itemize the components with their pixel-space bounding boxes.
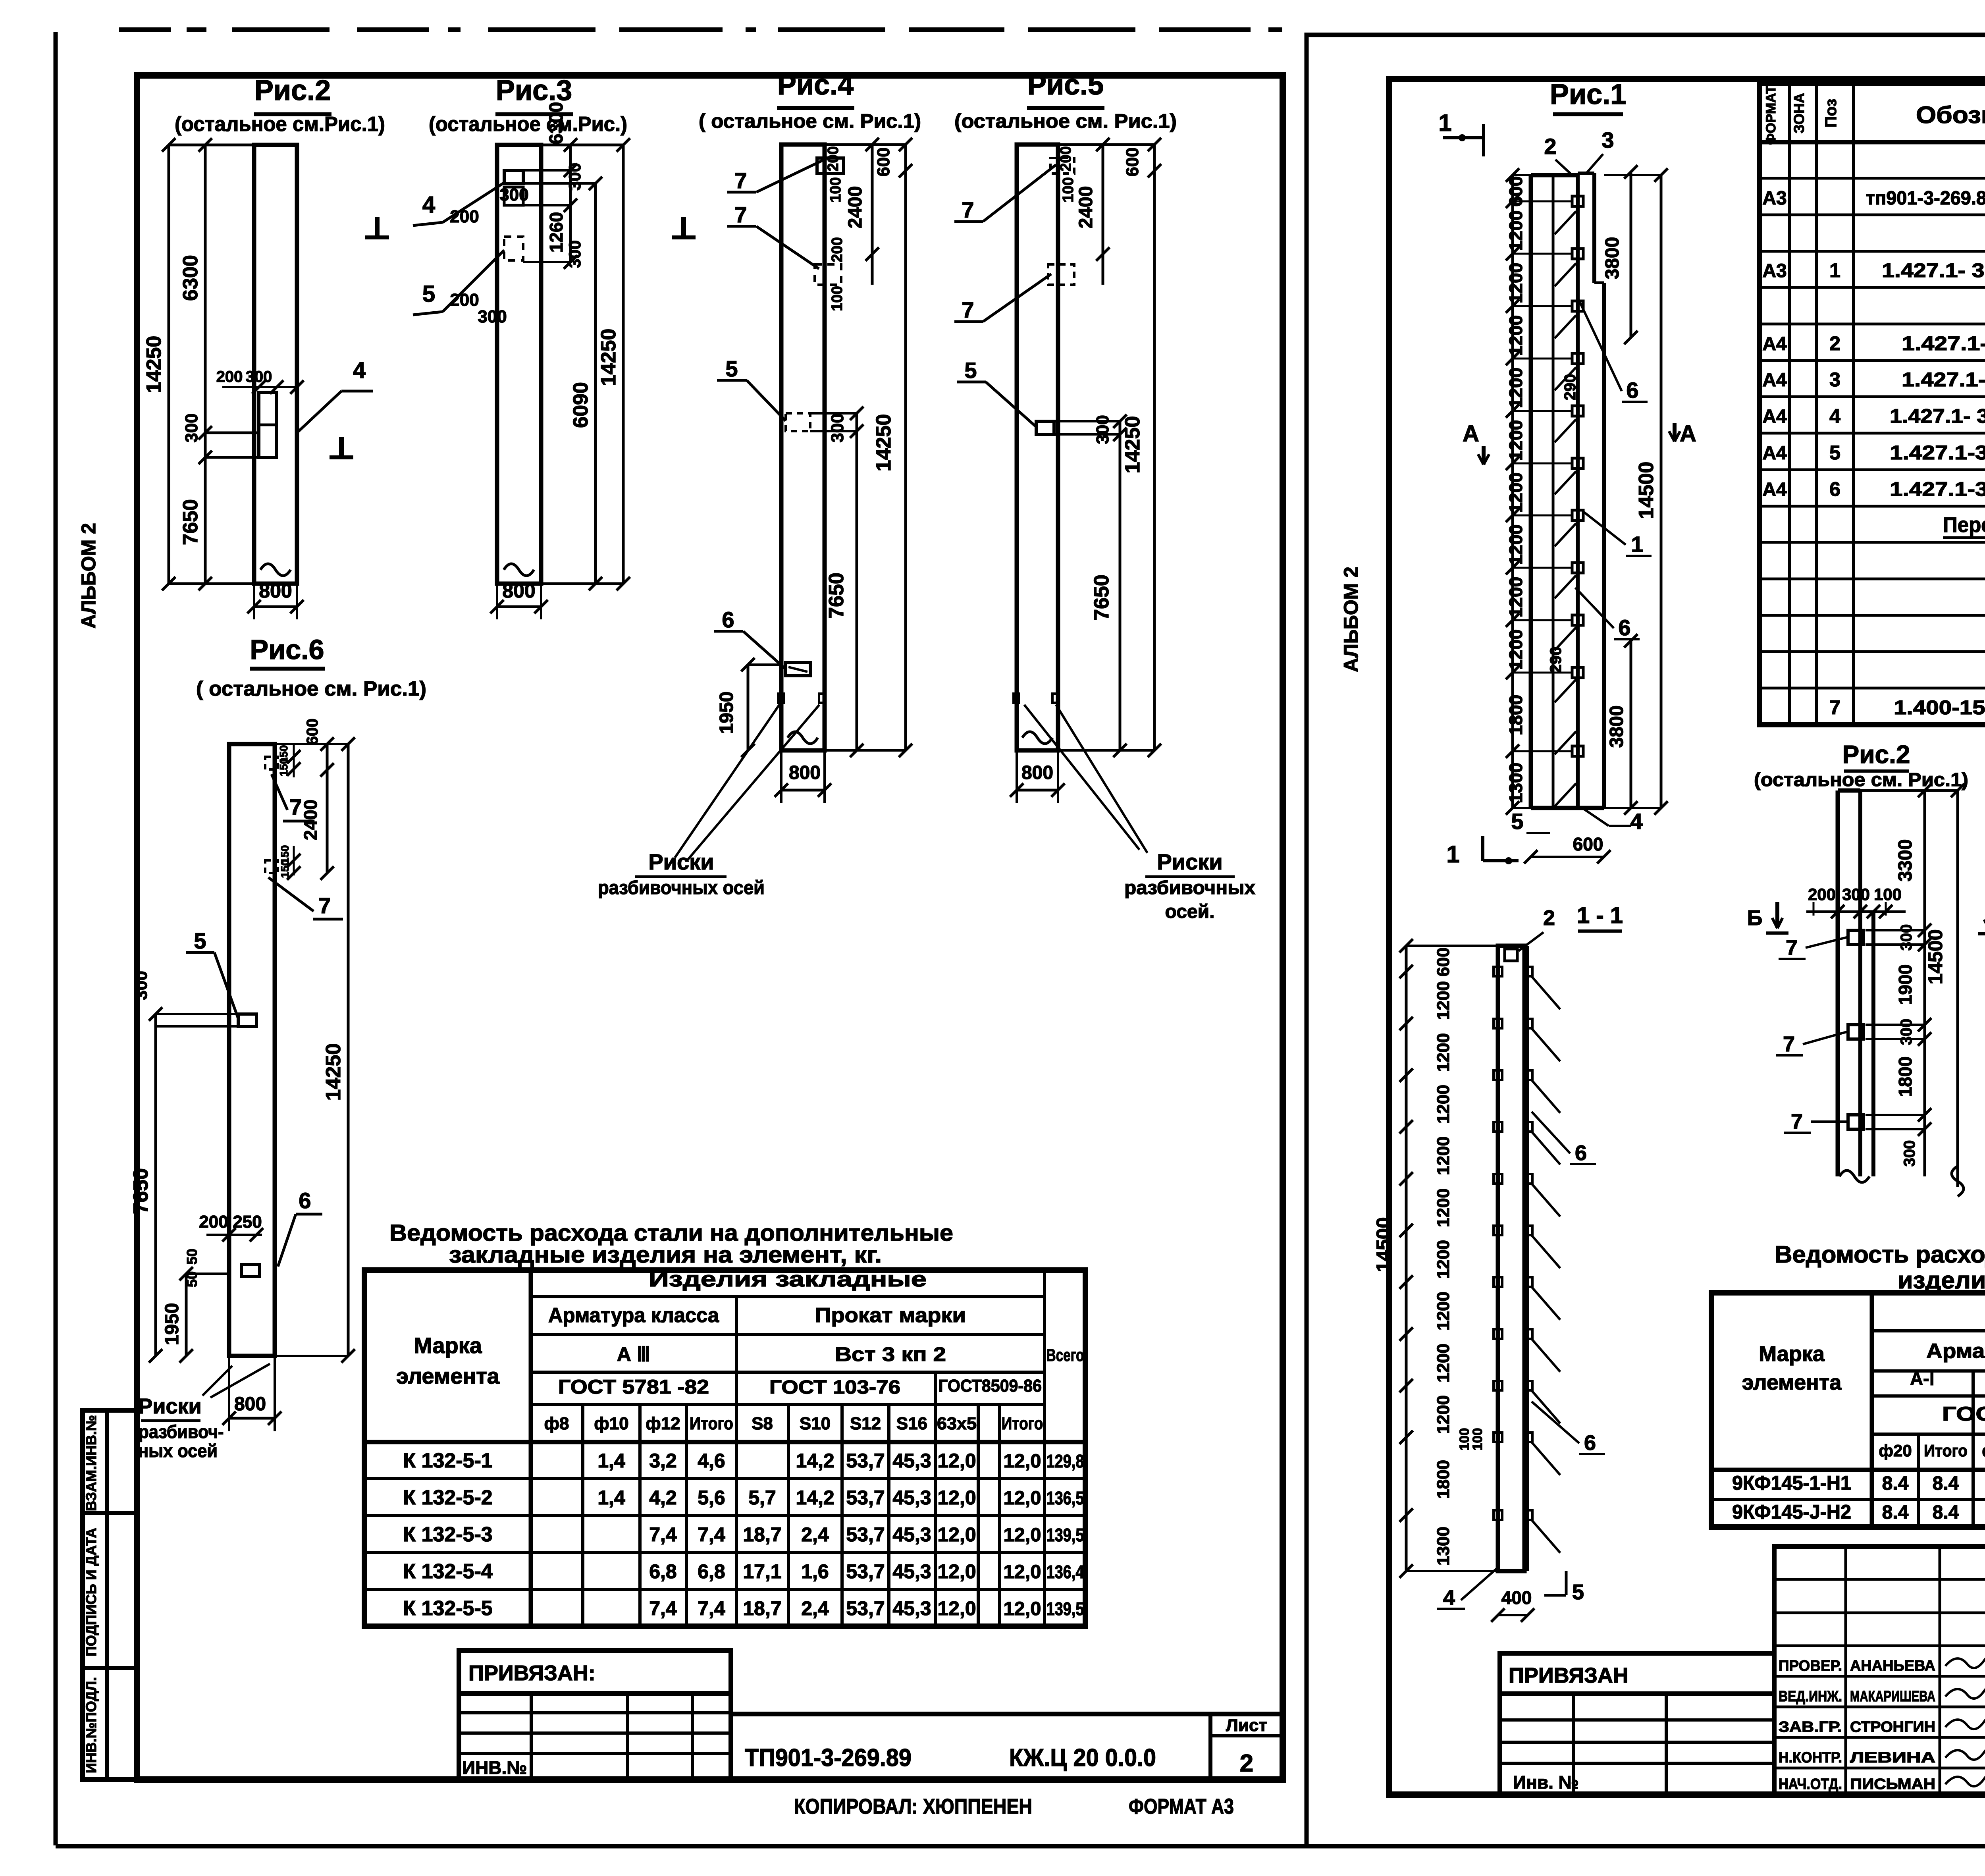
- svg-text:1200: 1200: [1434, 1033, 1453, 1072]
- svg-text:7650: 7650: [179, 499, 202, 545]
- svg-text:Риски: Риски: [648, 849, 714, 874]
- svg-text:14250: 14250: [322, 1043, 345, 1101]
- svg-text:Лист: Лист: [1226, 1716, 1267, 1735]
- svg-text:14500: 14500: [1635, 462, 1658, 519]
- svg-text:Риски: Риски: [138, 1394, 201, 1418]
- svg-text:14250: 14250: [597, 329, 620, 386]
- svg-text:(остальное см. Рис.1): (остальное см. Рис.1): [954, 110, 1177, 132]
- svg-text:300: 300: [565, 163, 584, 191]
- svg-text:разбивочных: разбивочных: [1124, 877, 1255, 898]
- svg-text:53,7: 53,7: [846, 1597, 885, 1620]
- svg-text:300: 300: [499, 185, 528, 204]
- svg-text:ГОСТ 103-76: ГОСТ 103-76: [769, 1377, 900, 1398]
- svg-text:1200: 1200: [1505, 368, 1526, 408]
- svg-text:1: 1: [1438, 110, 1451, 136]
- svg-text:200: 200: [450, 207, 479, 226]
- svg-text:3800: 3800: [1602, 237, 1623, 280]
- svg-text:Рис.3: Рис.3: [496, 75, 572, 106]
- svg-text:элемента: элемента: [396, 1363, 500, 1388]
- svg-text:1800: 1800: [1434, 1460, 1453, 1499]
- svg-text:6: 6: [299, 1188, 311, 1213]
- svg-text:1950: 1950: [162, 1303, 183, 1346]
- svg-text:7: 7: [1786, 936, 1798, 960]
- svg-text:53,7: 53,7: [846, 1450, 885, 1472]
- svg-text:1200: 1200: [1505, 577, 1526, 617]
- svg-text:18,7: 18,7: [743, 1523, 781, 1546]
- svg-text:1200: 1200: [1434, 1085, 1453, 1124]
- svg-text:200: 200: [216, 368, 243, 386]
- svg-text:1200: 1200: [1505, 629, 1526, 670]
- svg-text:разбивоч-: разбивоч-: [139, 1421, 224, 1442]
- svg-text:14,2: 14,2: [796, 1487, 834, 1509]
- svg-text:А-Ⅰ: А-Ⅰ: [1910, 1368, 1935, 1389]
- svg-text:200: 200: [829, 237, 846, 262]
- svg-text:7,4: 7,4: [698, 1523, 725, 1546]
- svg-text:50: 50: [184, 1249, 200, 1265]
- svg-text:8.4: 8.4: [1933, 1473, 1959, 1494]
- svg-text:800: 800: [234, 1394, 266, 1415]
- svg-text:12,0: 12,0: [1004, 1525, 1041, 1546]
- svg-text:7: 7: [1829, 696, 1840, 719]
- svg-text:1200: 1200: [1434, 1240, 1453, 1279]
- svg-text:тп901-3-269.89: тп901-3-269.89: [1866, 188, 1985, 209]
- svg-text:12,0: 12,0: [1004, 1598, 1041, 1620]
- svg-text:Рис.1: Рис.1: [1550, 79, 1626, 110]
- svg-text:закладные изделия на элемент,: закладные изделия на элемент, кг.: [449, 1242, 882, 1268]
- svg-text:ф20: ф20: [1879, 1441, 1912, 1460]
- svg-text:53,7: 53,7: [846, 1487, 885, 1509]
- svg-text:53,7: 53,7: [846, 1523, 885, 1546]
- svg-text:Вст 3 кп 2: Вст 3 кп 2: [835, 1343, 946, 1365]
- svg-text:800: 800: [502, 580, 535, 602]
- svg-text:5: 5: [725, 356, 738, 381]
- svg-text:150: 150: [279, 860, 291, 878]
- svg-text:8.4: 8.4: [1933, 1502, 1959, 1523]
- svg-text:КЖ.Ц 20 0.0.0: КЖ.Ц 20 0.0.0: [1009, 1744, 1156, 1772]
- svg-text:А4: А4: [1762, 479, 1787, 500]
- svg-text:S10: S10: [800, 1414, 831, 1433]
- svg-text:300: 300: [1842, 885, 1870, 904]
- svg-text:(остальное см.Рис.): (остальное см.Рис.): [429, 113, 627, 136]
- svg-text:ф10: ф10: [1982, 1441, 1985, 1460]
- svg-text:12,0: 12,0: [1004, 1451, 1041, 1472]
- svg-text:2,4: 2,4: [801, 1523, 829, 1546]
- svg-text:1200: 1200: [1434, 1344, 1453, 1382]
- svg-text:Инв. №: Инв. №: [1513, 1772, 1579, 1793]
- svg-text:200: 200: [450, 290, 479, 310]
- svg-text:ГОСТ8509-86: ГОСТ8509-86: [939, 1376, 1042, 1396]
- svg-text:300: 300: [182, 413, 201, 442]
- svg-text:ПРИВЯЗАН:: ПРИВЯЗАН:: [468, 1661, 595, 1685]
- svg-text:осей.: осей.: [1165, 901, 1215, 922]
- svg-text:Изделия закладные: Изделия закладные: [649, 1267, 927, 1291]
- svg-text:1900: 1900: [1895, 964, 1916, 1005]
- svg-text:12,0: 12,0: [1004, 1488, 1041, 1509]
- svg-text:1,6: 1,6: [801, 1560, 829, 1583]
- svg-text:А3: А3: [1762, 188, 1786, 209]
- svg-text:7650: 7650: [1090, 575, 1113, 621]
- svg-text:18,7: 18,7: [743, 1597, 781, 1620]
- svg-text:6090: 6090: [569, 382, 592, 428]
- svg-text:7: 7: [318, 893, 331, 918]
- svg-text:АНАНЬЕВА: АНАНЬЕВА: [1850, 1658, 1935, 1674]
- svg-text:7: 7: [1783, 1032, 1795, 1056]
- svg-text:100: 100: [827, 177, 844, 202]
- svg-text:1800: 1800: [1895, 1057, 1916, 1097]
- svg-text:изделия на один элемент, кг: изделия на один элемент, кг: [1898, 1267, 1985, 1294]
- svg-text:3,2: 3,2: [649, 1450, 677, 1472]
- svg-text:Поз: Поз: [1822, 99, 1840, 128]
- svg-text:800: 800: [1021, 762, 1053, 783]
- svg-text:1200: 1200: [1505, 315, 1526, 356]
- svg-text:А4: А4: [1762, 406, 1787, 427]
- svg-text:14500: 14500: [1372, 1217, 1395, 1272]
- svg-text:1,4: 1,4: [597, 1487, 625, 1509]
- svg-text:СТРОНГИН: СТРОНГИН: [1850, 1719, 1935, 1735]
- svg-text:129,8: 129,8: [1046, 1451, 1084, 1471]
- svg-text:45,3: 45,3: [892, 1523, 931, 1546]
- svg-text:К 132-5-3: К 132-5-3: [403, 1523, 492, 1546]
- svg-text:6: 6: [1626, 378, 1638, 403]
- svg-text:800: 800: [789, 762, 821, 783]
- svg-text:1300: 1300: [1505, 763, 1526, 803]
- svg-text:7: 7: [962, 197, 974, 222]
- svg-text:Итого: Итого: [1002, 1414, 1043, 1433]
- svg-text:300: 300: [131, 971, 151, 1000]
- svg-text:1200: 1200: [1505, 472, 1526, 513]
- svg-text:ГОСТ 5781 -82: ГОСТ 5781 -82: [558, 1376, 709, 1398]
- svg-text:53,7: 53,7: [846, 1560, 885, 1583]
- svg-text:2: 2: [1240, 1750, 1253, 1777]
- svg-text:элемента: элемента: [1742, 1371, 1842, 1394]
- svg-text:600: 600: [304, 719, 321, 745]
- svg-text:( остальное см. Рис.1): ( остальное см. Рис.1): [196, 677, 426, 700]
- svg-text:14250: 14250: [1121, 416, 1144, 474]
- svg-text:ф12: ф12: [646, 1414, 680, 1433]
- svg-text:КОПИРОВАЛ: ХЮППЕНЕН: КОПИРОВАЛ: ХЮППЕНЕН: [794, 1795, 1032, 1818]
- svg-text:300: 300: [565, 240, 584, 268]
- svg-text:1.427.1- 3.1- 2.00 -12.9: 1.427.1- 3.1- 2.00 -12.9: [1882, 259, 1985, 281]
- svg-text:400: 400: [1501, 1587, 1532, 1608]
- svg-text:S8: S8: [752, 1414, 773, 1433]
- svg-text:S12: S12: [850, 1414, 881, 1433]
- svg-text:7,4: 7,4: [649, 1597, 677, 1620]
- svg-text:6: 6: [1575, 1141, 1587, 1165]
- svg-text:1200: 1200: [1434, 1188, 1453, 1227]
- svg-text:6: 6: [1618, 615, 1630, 640]
- svg-text:ных осей: ных осей: [138, 1440, 218, 1461]
- svg-text:5: 5: [1572, 1580, 1584, 1604]
- svg-text:А3: А3: [1762, 260, 1786, 281]
- svg-text:7,4: 7,4: [698, 1597, 725, 1620]
- svg-text:3300: 3300: [1895, 839, 1916, 882]
- svg-text:139,5: 139,5: [1046, 1525, 1084, 1545]
- svg-text:2: 2: [1829, 332, 1840, 355]
- svg-text:1: 1: [1446, 841, 1459, 868]
- svg-text:300: 300: [246, 368, 272, 386]
- svg-text:5: 5: [1511, 809, 1523, 834]
- svg-text:ФОРМАТ: ФОРМАТ: [1763, 85, 1779, 145]
- svg-text:300: 300: [1898, 924, 1915, 951]
- svg-text:К 132-5-2: К 132-5-2: [403, 1486, 492, 1509]
- svg-text:Рис.6: Рис.6: [250, 634, 324, 665]
- svg-text:Риски: Риски: [1157, 849, 1222, 874]
- svg-text:А: А: [1680, 421, 1696, 447]
- svg-text:( остальное см. Рис.1): ( остальное см. Рис.1): [699, 110, 921, 132]
- svg-text:17,1: 17,1: [743, 1560, 781, 1583]
- svg-text:12,0: 12,0: [937, 1450, 976, 1472]
- svg-text:136,5: 136,5: [1046, 1488, 1084, 1508]
- svg-text:1 - 1: 1 - 1: [1577, 902, 1623, 928]
- svg-text:А4: А4: [1762, 443, 1787, 464]
- svg-text:9КФ145-1-Н1: 9КФ145-1-Н1: [1732, 1472, 1851, 1494]
- svg-text:14250: 14250: [143, 336, 166, 393]
- svg-text:2400: 2400: [300, 800, 321, 840]
- svg-text:1.427.1- 3.2 - 0.07.0: 1.427.1- 3.2 - 0.07.0: [1902, 368, 1985, 391]
- svg-text:разбивочных осей: разбивочных осей: [598, 877, 765, 898]
- svg-text:12,0: 12,0: [1004, 1562, 1041, 1583]
- svg-text:ПОДПИСЬ И ДАТА: ПОДПИСЬ И ДАТА: [83, 1528, 99, 1656]
- svg-text:600: 600: [1434, 947, 1453, 976]
- svg-text:Ведомость расхода стали на доп: Ведомость расхода стали на дополнительны…: [1775, 1241, 1985, 1268]
- svg-text:1.427.1- 3.2- 0.12.0 -01: 1.427.1- 3.2- 0.12.0 -01: [1890, 405, 1985, 427]
- svg-text:АЛЬБОМ 2: АЛЬБОМ 2: [77, 523, 100, 629]
- svg-text:1.400-15 В1 210-42: 1.400-15 В1 210-42: [1894, 696, 1985, 719]
- svg-text:600: 600: [1123, 147, 1142, 176]
- svg-text:6: 6: [1584, 1431, 1596, 1455]
- svg-text:ТП901-3-269.89: ТП901-3-269.89: [745, 1744, 912, 1772]
- svg-text:45,3: 45,3: [892, 1450, 931, 1472]
- svg-text:600: 600: [1573, 834, 1603, 854]
- svg-text:А: А: [1463, 421, 1479, 447]
- svg-text:5,6: 5,6: [698, 1487, 725, 1509]
- svg-text:ф10: ф10: [594, 1414, 628, 1433]
- svg-text:Обозначение: Обозначение: [1916, 102, 1985, 128]
- svg-text:12,0: 12,0: [937, 1597, 976, 1620]
- svg-text:Итого: Итого: [690, 1414, 733, 1433]
- svg-text:4: 4: [353, 357, 366, 383]
- svg-text:100: 100: [829, 286, 846, 311]
- svg-text:7650: 7650: [825, 573, 848, 619]
- svg-text:ВЗАМ.ИНВ.№: ВЗАМ.ИНВ.№: [83, 1415, 99, 1511]
- svg-text:6: 6: [722, 607, 734, 632]
- svg-text:4: 4: [422, 192, 435, 218]
- svg-text:(остальное см. Рис.1): (остальное см. Рис.1): [1754, 769, 1968, 791]
- svg-text:250: 250: [233, 1212, 262, 1232]
- svg-text:7: 7: [962, 297, 974, 322]
- svg-text:200: 200: [199, 1212, 228, 1232]
- svg-text:45,3: 45,3: [892, 1560, 931, 1583]
- svg-text:14250: 14250: [872, 414, 895, 472]
- svg-text:200: 200: [825, 146, 842, 171]
- svg-text:5: 5: [964, 358, 977, 383]
- svg-text:ИНВ.№: ИНВ.№: [462, 1757, 527, 1778]
- svg-text:S16: S16: [896, 1414, 927, 1433]
- svg-text:1,4: 1,4: [597, 1450, 625, 1472]
- svg-text:1800: 1800: [1505, 695, 1526, 735]
- svg-text:7,4: 7,4: [649, 1523, 677, 1546]
- svg-text:5: 5: [1829, 442, 1840, 464]
- svg-text:6,8: 6,8: [649, 1560, 677, 1583]
- svg-text:Марка: Марка: [414, 1333, 482, 1358]
- svg-text:8.4: 8.4: [1882, 1502, 1909, 1523]
- svg-text:3: 3: [1601, 127, 1614, 152]
- svg-text:Прокат марки: Прокат марки: [815, 1304, 966, 1327]
- svg-text:6,8: 6,8: [698, 1560, 725, 1583]
- svg-text:1260: 1260: [546, 212, 567, 253]
- svg-text:1.427.1-3.2-0.20.0 -03: 1.427.1-3.2-0.20.0 -03: [1890, 442, 1985, 464]
- svg-text:1300: 1300: [1434, 1527, 1453, 1566]
- svg-text:1.427.1-3.2-0.21.0 -04: 1.427.1-3.2-0.21.0 -04: [1890, 478, 1985, 500]
- svg-text:9КФ145-J-Н2: 9КФ145-J-Н2: [1732, 1501, 1851, 1523]
- svg-text:(остальное см.Рис.1): (остальное см.Рис.1): [175, 113, 385, 136]
- svg-text:136,4: 136,4: [1046, 1562, 1084, 1582]
- svg-text:100: 100: [1470, 1428, 1485, 1451]
- svg-text:ПИСЬМАН: ПИСЬМАН: [1850, 1776, 1935, 1793]
- svg-text:2400: 2400: [845, 186, 866, 229]
- svg-text:12,0: 12,0: [937, 1523, 976, 1546]
- svg-text:АЛЬБОМ 2: АЛЬБОМ 2: [1340, 567, 1362, 672]
- svg-text:К 132-5-4: К 132-5-4: [403, 1560, 492, 1583]
- svg-text:800: 800: [259, 580, 292, 602]
- svg-text:200: 200: [1808, 885, 1836, 904]
- svg-text:К 132-5-1: К 132-5-1: [403, 1449, 492, 1472]
- svg-text:ВЕД.ИНЖ.: ВЕД.ИНЖ.: [1779, 1688, 1842, 1705]
- svg-text:1950: 1950: [716, 692, 737, 734]
- svg-text:8.4: 8.4: [1882, 1473, 1909, 1494]
- svg-text:290: 290: [1561, 374, 1579, 401]
- svg-text:4: 4: [1443, 1586, 1455, 1610]
- svg-text:300: 300: [1093, 415, 1112, 444]
- svg-text:100: 100: [1874, 885, 1902, 904]
- svg-text:1200: 1200: [1434, 1395, 1453, 1434]
- svg-text:1200: 1200: [1505, 524, 1526, 565]
- svg-text:6300: 6300: [546, 102, 567, 145]
- svg-text:1.427.1-3.2- 0.06.2: 1.427.1-3.2- 0.06.2: [1902, 332, 1985, 355]
- svg-text:12,0: 12,0: [937, 1487, 976, 1509]
- svg-text:МАКАРИШЕВА: МАКАРИШЕВА: [1850, 1688, 1935, 1705]
- svg-text:2: 2: [1544, 134, 1556, 159]
- svg-text:7650: 7650: [129, 1168, 152, 1214]
- svg-text:7: 7: [734, 202, 747, 227]
- svg-text:Всего: Всего: [1046, 1346, 1084, 1365]
- svg-text:4: 4: [1630, 809, 1642, 834]
- svg-text:5,7: 5,7: [748, 1487, 776, 1509]
- svg-text:ЗАВ.ГР.: ЗАВ.ГР.: [1779, 1719, 1842, 1735]
- svg-text:Итого: Итого: [1924, 1441, 1968, 1460]
- svg-text:300: 300: [1901, 1140, 1918, 1167]
- svg-text:600: 600: [874, 147, 893, 176]
- svg-text:ИНВ.№ПОДЛ.: ИНВ.№ПОДЛ.: [83, 1677, 99, 1773]
- svg-text:Рис.2: Рис.2: [254, 75, 331, 106]
- svg-text:200: 200: [1058, 146, 1074, 171]
- svg-text:3800: 3800: [1606, 706, 1627, 748]
- svg-text:А4: А4: [1762, 334, 1787, 355]
- svg-text:1200: 1200: [1434, 1292, 1453, 1330]
- svg-text:ЛЕВИНА: ЛЕВИНА: [1850, 1749, 1935, 1766]
- svg-text:А4: А4: [1762, 370, 1787, 391]
- svg-text:Арматура класса: Арматура класса: [548, 1304, 719, 1327]
- svg-text:ПРИВЯЗАН: ПРИВЯЗАН: [1509, 1664, 1628, 1687]
- svg-text:5: 5: [194, 928, 206, 953]
- svg-text:ГОСТ5781-82: ГОСТ5781-82: [1942, 1403, 1985, 1425]
- svg-text:Рис.2: Рис.2: [1842, 740, 1910, 769]
- svg-text:6300: 6300: [179, 255, 202, 301]
- svg-text:150: 150: [278, 758, 290, 777]
- svg-text:1200: 1200: [1505, 210, 1526, 251]
- svg-text:1200: 1200: [1505, 420, 1526, 461]
- svg-text:ф8: ф8: [544, 1414, 569, 1433]
- svg-text:1: 1: [1829, 259, 1840, 281]
- svg-text:100: 100: [1060, 177, 1077, 202]
- svg-text:7: 7: [734, 168, 747, 193]
- svg-text:300: 300: [1898, 1019, 1915, 1045]
- svg-text:Рис.5: Рис.5: [1027, 69, 1104, 101]
- svg-text:45,3: 45,3: [892, 1487, 931, 1509]
- svg-text:5: 5: [422, 281, 435, 307]
- svg-text:139,5: 139,5: [1046, 1598, 1084, 1619]
- svg-text:1200: 1200: [1434, 981, 1453, 1020]
- svg-text:50: 50: [184, 1271, 200, 1287]
- svg-text:300: 300: [478, 307, 507, 326]
- svg-text:14500: 14500: [1924, 929, 1946, 984]
- svg-text:Арматура класса: Арматура класса: [1926, 1340, 1985, 1363]
- svg-text:ПРОВЕР.: ПРОВЕР.: [1779, 1658, 1842, 1674]
- svg-text:1200: 1200: [1434, 1136, 1453, 1175]
- svg-text:1200: 1200: [1505, 263, 1526, 303]
- svg-text:2: 2: [1543, 906, 1555, 930]
- svg-text:290: 290: [1547, 647, 1565, 673]
- svg-text:НАЧ.ОТД.: НАЧ.ОТД.: [1779, 1776, 1842, 1793]
- svg-text:А Ⅲ: А Ⅲ: [617, 1343, 650, 1365]
- svg-text:1: 1: [1631, 532, 1643, 557]
- svg-text:4,2: 4,2: [649, 1487, 677, 1509]
- svg-text:2400: 2400: [1075, 186, 1097, 229]
- svg-text:6: 6: [1829, 478, 1840, 500]
- svg-text:63х5: 63х5: [937, 1414, 977, 1433]
- svg-text:Рис.4: Рис.4: [777, 69, 854, 101]
- svg-text:14,2: 14,2: [796, 1450, 834, 1472]
- svg-text:45,3: 45,3: [892, 1597, 931, 1620]
- svg-text:3: 3: [1829, 368, 1840, 391]
- svg-text:2,4: 2,4: [801, 1597, 829, 1620]
- svg-text:7: 7: [1791, 1110, 1803, 1134]
- svg-text:4: 4: [1829, 405, 1840, 427]
- svg-text:Б: Б: [1747, 906, 1763, 930]
- svg-text:ФОРМАТ А3: ФОРМАТ А3: [1129, 1795, 1234, 1818]
- svg-text:Марка: Марка: [1759, 1342, 1825, 1366]
- svg-text:300: 300: [828, 413, 847, 442]
- svg-text:4,6: 4,6: [698, 1450, 725, 1472]
- svg-text:ЗОНА: ЗОНА: [1791, 93, 1807, 133]
- svg-text:К 132-5-5: К 132-5-5: [403, 1597, 492, 1620]
- svg-text:Переменные данные для исполнен: Переменные данные для исполнения: [1943, 513, 1985, 537]
- svg-text:Н.КОНТР.: Н.КОНТР.: [1779, 1749, 1842, 1766]
- svg-text:12,0: 12,0: [937, 1560, 976, 1583]
